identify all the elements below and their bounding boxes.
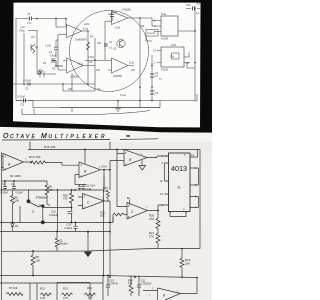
- wire opamp feedback column: [83, 22, 108, 85]
- label R24: [103, 186, 108, 193]
- svg-text:Pause: Pause: [36, 195, 48, 200]
- wire stub to R18: [181, 249, 183, 259]
- op-amp IC1d: [108, 58, 134, 73]
- bus rails y222.5 y231.5: [0, 217, 113, 232]
- resistor R19: [129, 276, 133, 297]
- 4013 bottom tie U wire: [170, 212, 186, 217]
- op-amp B1: [79, 162, 110, 178]
- svg-text:470: 470: [63, 197, 68, 201]
- backgrounds: [0, 0, 212, 132]
- svg-text:MULTIPLEXER: MULTIPLEXER: [41, 133, 108, 140]
- op-amp C2: [127, 203, 158, 220]
- wire B1 out up to B2: [104, 161, 125, 276]
- capacitor C11: [137, 276, 141, 297]
- 4013 left pins: [165, 156, 169, 205]
- svg-text:47K: 47K: [96, 69, 101, 72]
- 4013 right pins: [190, 157, 195, 208]
- svg-text:R8: R8: [36, 255, 40, 259]
- svg-text:IC2a: IC2a: [161, 13, 167, 16]
- wire switch to R25 column: [43, 207, 72, 209]
- svg-text:47K: 47K: [128, 283, 133, 286]
- wire left rail: [15, 19, 17, 101]
- capacitor C3: [3, 181, 7, 191]
- junction rings bus: [41, 221, 44, 224]
- ground below B2: [139, 160, 146, 170]
- svg-text:C15, C14: C15, C14: [84, 184, 96, 188]
- svg-text:R12: R12: [40, 287, 45, 291]
- capacitor C16: [68, 211, 73, 222]
- wire bottom y100.5: [16, 101, 160, 108]
- svg-text:22K: 22K: [68, 88, 73, 91]
- capacitor C6: [52, 58, 63, 66]
- op-amp C1: [78, 194, 110, 210]
- svg-text:R16 13K: R16 13K: [29, 155, 41, 159]
- bottom resistor row: [30, 276, 103, 300]
- black bar top: [0, 0, 212, 3]
- resistor R12: [40, 293, 52, 296]
- svg-text:1.5uF: 1.5uF: [45, 45, 52, 48]
- misc labels top: [31, 3, 201, 98]
- svg-text:47n: 47n: [27, 21, 32, 25]
- svg-text:10K: 10K: [103, 189, 108, 193]
- wire bus y84: [13, 83, 95, 85]
- resistor R3 vertical: [87, 42, 90, 50]
- svg-text:A: A: [162, 294, 165, 298]
- resistor R20: [156, 218, 160, 248]
- svg-text:R13: R13: [63, 287, 68, 291]
- black bar left: [0, 0, 14, 126]
- wire R16 to B1: [62, 163, 79, 166]
- wire bottom border: [22, 109, 150, 115]
- left rail bottom sch: [1, 152, 3, 300]
- svg-text:10K: 10K: [97, 42, 102, 45]
- svg-text:0.0022uF: 0.0022uF: [141, 283, 152, 286]
- op-amp A2: [143, 278, 197, 300]
- svg-text:R15 10K: R15 10K: [44, 145, 56, 149]
- wire y91 under IC1c: [63, 73, 95, 91]
- wire B1 lower input: [75, 175, 79, 185]
- wire bottom rect: [158, 247, 200, 249]
- resistor R18: [180, 258, 184, 277]
- capacitor C10: [106, 276, 110, 297]
- wire gnd rail y251: [2, 248, 159, 251]
- resistor R25: [70, 190, 74, 211]
- svg-text:27K: 27K: [149, 217, 154, 221]
- svg-text:10K: 10K: [15, 199, 20, 203]
- capacitor C3 top: [110, 10, 114, 21]
- switch S1 pause: [27, 200, 30, 203]
- IC2a box: [161, 16, 178, 36]
- svg-text:0.02uF: 0.02uF: [65, 227, 73, 230]
- svg-text:B+: B+: [127, 196, 131, 200]
- svg-text:1M: 1M: [31, 36, 34, 39]
- svg-text:IC1b: IC1b: [115, 27, 121, 30]
- black bar right: [200, 0, 212, 132]
- svg-text:OCTAVE: OCTAVE: [3, 133, 37, 140]
- wire y181 feedback: [2, 180, 48, 182]
- junction A2/rails: [196, 277, 198, 279]
- resistor R5: [11, 191, 15, 223]
- svg-text:IC1d: IC1d: [129, 62, 135, 65]
- capacitor C2: [104, 44, 108, 46]
- wire right rail x195: [183, 6, 200, 101]
- svg-text:C6: C6: [52, 67, 56, 71]
- capacitor C4 column: [54, 40, 58, 58]
- diode D4 between buses: [11, 223, 14, 232]
- capacitor C8: [150, 91, 155, 94]
- capacitor C11 bottom: [24, 99, 26, 103]
- wire right column x140 x152: [140, 18, 152, 101]
- resistor R9 600ohm column: [55, 232, 59, 252]
- op-amp IC1c: [58, 45, 83, 73]
- svg-text:0.1uF: 0.1uF: [120, 94, 127, 97]
- red mark T: [149, 293, 151, 297]
- svg-text:10K: 10K: [100, 214, 105, 218]
- svg-text:2.2M: 2.2M: [84, 23, 89, 26]
- svg-text:680K: 680K: [101, 165, 107, 169]
- svg-text:S: S: [32, 210, 34, 214]
- capacitor C10 top right: [193, 7, 195, 11]
- svg-text:0.02uF: 0.02uF: [16, 192, 24, 195]
- wire y190: [2, 176, 105, 190]
- svg-text:10K: 10K: [36, 259, 41, 263]
- svg-text:C9: C9: [27, 12, 31, 16]
- resistor R21 label: [149, 231, 155, 238]
- svg-text:10K: 10K: [113, 11, 118, 14]
- wire top to B2: [117, 150, 124, 154]
- svg-text:R14: R14: [87, 286, 92, 290]
- svg-text:+1V: +1V: [20, 25, 25, 29]
- svg-text:10K: 10K: [185, 262, 190, 266]
- svg-text:1M: 1M: [97, 88, 100, 91]
- svg-text:27K: 27K: [149, 234, 154, 238]
- svg-text:C12: C12: [88, 61, 93, 64]
- svg-text:10K: 10K: [88, 296, 93, 300]
- transistor Q2: [117, 39, 125, 47]
- op-amp IC1b: [108, 12, 152, 25]
- svg-text:IC2b: IC2b: [171, 44, 177, 47]
- separator band: [0, 121, 212, 133]
- svg-text:C10: C10: [186, 4, 191, 7]
- svg-text:LM308N: LM308N: [70, 76, 79, 79]
- op-amp B2: [124, 150, 169, 167]
- wire long bottom: [16, 94, 197, 108]
- resistor R16: [31, 161, 62, 164]
- wire pin9 to R20 branch: [158, 205, 165, 218]
- junction dots top: [23, 8, 196, 102]
- node junction C11: [134, 276, 136, 278]
- svg-text:VSig: VSig: [19, 29, 25, 33]
- wire C1 out down: [109, 201, 111, 276]
- wire lower rail y283: [0, 282, 103, 284]
- caps C14 C15: [75, 185, 86, 191]
- wire ticks bottom: [72, 101, 140, 113]
- svg-text:R7 10K: R7 10K: [9, 286, 18, 290]
- svg-text:600ohm: 600ohm: [59, 243, 68, 246]
- wire y74: [37, 47, 56, 74]
- svg-text:C11: C11: [20, 103, 25, 107]
- svg-text:IC1a: IC1a: [83, 28, 89, 31]
- svg-text:+9V: +9V: [196, 3, 201, 6]
- svg-text:C5: C5: [25, 87, 29, 91]
- resistor R7: [6, 293, 23, 296]
- op-amp A1: [2, 154, 32, 171]
- wire mid verticals: [24, 30, 37, 84]
- resistor R24 feedback: [107, 190, 110, 201]
- title OCTAVE MULTIPLEXER: [2, 133, 158, 140]
- capacitor C5 on y84: [28, 83, 30, 86]
- svg-text:0.047uF: 0.047uF: [109, 283, 119, 286]
- svg-text:0.02uF: 0.02uF: [17, 95, 25, 99]
- wire x57 column: [57, 190, 59, 232]
- svg-text:4013: 4013: [171, 164, 187, 173]
- svg-text:4013B: 4013B: [161, 69, 168, 72]
- svg-text:C3: C3: [2, 182, 6, 186]
- capacitor C7: [150, 74, 155, 77]
- resistor R6: [45, 181, 49, 204]
- junction dots bottom sch: [1, 149, 159, 278]
- svg-text:va: va: [126, 134, 130, 138]
- svg-text:R2 100K: R2 100K: [10, 174, 21, 178]
- svg-text:D: D: [178, 185, 181, 190]
- label R2 100K: [10, 174, 21, 178]
- box Q1 package: [146, 30, 158, 37]
- svg-text:0.1uF: 0.1uF: [85, 187, 92, 191]
- capacitor C13: [74, 223, 78, 232]
- wire top to B1: [84, 150, 86, 164]
- svg-text:LM308N: LM308N: [122, 9, 131, 12]
- resistor R13: [61, 293, 73, 296]
- svg-text:4.7K: 4.7K: [63, 296, 69, 300]
- capacitor C4: [12, 181, 16, 191]
- svg-text:LM308N: LM308N: [75, 39, 84, 42]
- capacitor C9 input: [30, 17, 32, 21]
- wire mid rail y277: [0, 276, 197, 278]
- svg-text:C4: C4: [11, 182, 15, 186]
- resistor R8: [31, 255, 35, 276]
- svg-text:CLK: CLK: [170, 56, 175, 59]
- svg-text:4.7K: 4.7K: [40, 296, 46, 300]
- svg-text:4013B: 4013B: [161, 38, 168, 41]
- 4013 right pin loops: [195, 150, 199, 208]
- resistor R22 into C2: [113, 154, 127, 223]
- B+ label: [127, 196, 131, 200]
- op-amp IC1a: [56, 19, 88, 46]
- svg-text:0.02uF: 0.02uF: [1, 192, 9, 195]
- wire x20 stub: [19, 206, 21, 223]
- transistor Q1: [31, 44, 35, 53]
- wire input top: [16, 19, 67, 27]
- svg-text:0.5uF: 0.5uF: [50, 54, 57, 58]
- enclosure circle: [70, 11, 149, 92]
- IC2b box: [161, 47, 184, 67]
- node labels input: [19, 12, 32, 32]
- ground sym: [115, 101, 121, 112]
- diode D1 pair: [39, 69, 45, 78]
- svg-text:0.02uF: 0.02uF: [23, 79, 31, 83]
- wire top rail R15: [28, 142, 200, 249]
- svg-text:1.5uF: 1.5uF: [88, 56, 95, 59]
- svg-text:10K: 10K: [131, 69, 136, 72]
- svg-text:IC1c: IC1c: [78, 63, 84, 66]
- 4013 IC U1: [169, 153, 191, 212]
- svg-text:LM308N: LM308N: [113, 75, 122, 78]
- resistor R14: [84, 293, 96, 296]
- ground mid: [87, 232, 89, 253]
